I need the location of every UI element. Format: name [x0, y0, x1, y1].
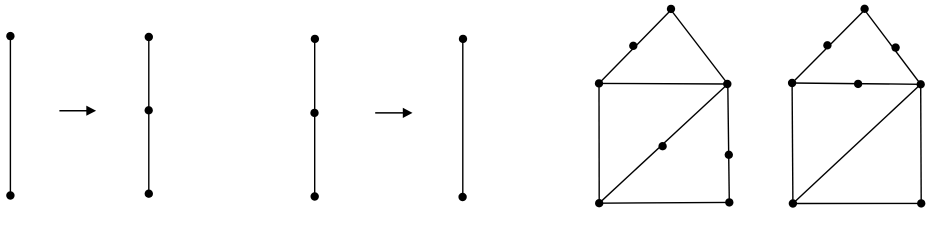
H2 left roof vertex [823, 41, 831, 49]
house H1 left roof edge [599, 10, 671, 83]
G2 middle vertex [145, 106, 153, 114]
H1 top-left vertex [595, 79, 603, 87]
arrow 2 head [403, 108, 413, 118]
H1 top-right vertex [723, 80, 731, 88]
G4 bottom vertex [458, 193, 466, 201]
H1 apex vertex [667, 5, 675, 13]
house H2 left roof edge [792, 10, 865, 83]
H2 right roof vertex [891, 43, 899, 51]
G1 bottom vertex [6, 191, 14, 199]
G4 top vertex [459, 35, 467, 43]
house H2 diagonal edge [793, 84, 921, 203]
G3 top vertex [311, 35, 319, 43]
house H1 top edge [599, 82, 728, 85]
H1 left roof vertex [629, 42, 637, 50]
segment graph G3 edge [314, 39, 316, 197]
H1 diagonal vertex [658, 142, 666, 150]
H2 top-left vertex [788, 79, 796, 87]
G1 top vertex [6, 32, 14, 40]
G3 middle vertex [310, 109, 318, 117]
segment graph G1 edge [9, 36, 11, 195]
H2 top middle vertex [854, 80, 862, 88]
G3 bottom vertex [311, 192, 319, 200]
H2 apex vertex [860, 5, 868, 13]
G2 bottom vertex [145, 190, 153, 198]
house H2 left edge [791, 83, 794, 204]
house H1 diagonal edge [599, 84, 728, 203]
H2 bottom-right vertex [917, 199, 925, 207]
H1 bottom-right vertex [725, 198, 733, 206]
H2 top-right vertex [917, 80, 925, 88]
H1 right edge vertex [725, 151, 733, 159]
house H1 left edge [598, 83, 600, 203]
arrow 1 shaft [59, 110, 88, 112]
arrow 1 head [86, 106, 96, 116]
house H1 right roof edge [671, 10, 728, 84]
H2 bottom-left vertex [789, 199, 797, 207]
house H2 right roof edge [865, 10, 921, 84]
segment graph G4 edge [462, 39, 464, 197]
segment graph G2 edge [148, 37, 150, 194]
arrow 2 shaft [375, 112, 404, 114]
G2 top vertex [145, 33, 153, 41]
house H2 top edge [792, 83, 921, 84]
house H2 bottom edge [793, 202, 921, 204]
H1 bottom-left vertex [595, 199, 603, 207]
house H2 right edge [920, 84, 923, 203]
house H1 right edge [728, 84, 730, 202]
house H1 bottom edge [599, 201, 729, 204]
